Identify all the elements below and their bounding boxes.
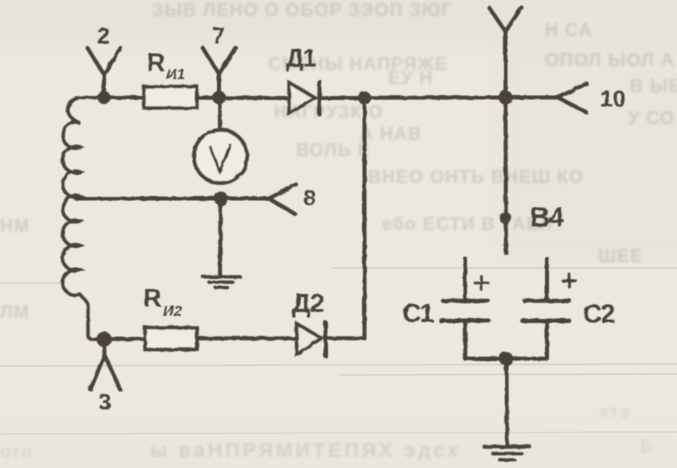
- svg-text:Б: Б: [640, 436, 654, 456]
- capacitor C1: [441, 259, 489, 359]
- node junction 7: [212, 91, 226, 105]
- wire voltmeter junction to ground: [218, 199, 223, 277]
- svg-text:С2: С2: [583, 299, 615, 329]
- terminal 2: [88, 48, 121, 95]
- node junction below voltmeter: [214, 192, 228, 206]
- svg-text:Н СА: Н СА: [545, 20, 593, 40]
- wire junction10 down to B4: [504, 98, 509, 254]
- svg-text:ОПОЛ ЫОЛ А: ОПОЛ ЫОЛ А: [545, 50, 675, 70]
- svg-text:Д1: Д1: [286, 45, 317, 73]
- inductor L coil: [63, 97, 104, 339]
- svg-text:R: R: [147, 49, 165, 77]
- label RИ2: [144, 285, 183, 321]
- terminal 10: [506, 84, 587, 113]
- svg-text:ЛМ: ЛМ: [0, 302, 30, 322]
- svg-text:Д2: Д2: [292, 288, 324, 318]
- resistor RИ2: [145, 328, 197, 350]
- terminal 8: [221, 185, 296, 215]
- voltmeter U1: [194, 130, 247, 183]
- svg-text:3: 3: [99, 389, 112, 415]
- wire node A to node 10: [365, 96, 506, 100]
- label RИ1: [147, 49, 185, 83]
- wire junction to ground 2: [505, 359, 510, 445]
- wire junction2 to RИ1: [104, 96, 145, 100]
- svg-text:С1: С1: [403, 298, 434, 328]
- wire riser node A down: [363, 98, 367, 338]
- svg-text:8: 8: [304, 186, 316, 211]
- wire capacitor bottoms: [465, 357, 547, 361]
- wire coil tap to voltmeter junction: [76, 197, 221, 201]
- wire junction3 to RИ2: [104, 337, 146, 342]
- capacitor C2: [523, 259, 577, 359]
- svg-text:У СО: У СО: [628, 108, 675, 128]
- wire RИ2 to Д2: [197, 336, 297, 340]
- svg-text:И2: И2: [163, 303, 183, 320]
- node B4: [499, 212, 511, 224]
- svg-text:ШЕЕ: ШЕЕ: [598, 246, 643, 266]
- node junction 10: [499, 91, 513, 105]
- node A junction: [358, 91, 371, 104]
- resistor RИ1: [144, 87, 197, 109]
- svg-text:2: 2: [97, 23, 110, 49]
- wire Д1 to node A: [320, 96, 365, 100]
- svg-text:В ЫБ: В ЫБ: [630, 76, 677, 96]
- ground bottom right: [485, 447, 530, 460]
- terminal 3: [91, 339, 121, 390]
- diode Д1: [289, 82, 320, 115]
- svg-text:ебо ЕСТИ В ТАБЛ: ебо ЕСТИ В ТАБЛ: [382, 214, 553, 234]
- svg-text:7: 7: [212, 23, 225, 49]
- svg-text:И1: И1: [166, 66, 185, 83]
- wire Д2 to riser: [326, 336, 365, 340]
- node junction 2: [97, 91, 110, 104]
- svg-text:ото: ото: [0, 442, 33, 462]
- node junction 3: [96, 332, 111, 347]
- svg-text:НМ: НМ: [0, 216, 30, 236]
- diode Д2: [297, 323, 326, 357]
- terminal antenna top: [489, 8, 522, 97]
- faint rules (decorative): [0, 268, 677, 434]
- svg-text:10: 10: [600, 86, 626, 112]
- wire RИ1 to Д1: [197, 96, 289, 100]
- voltmeter V glyph: [210, 145, 230, 172]
- svg-text:ВНЕО ОНТЬ ВНЕШ КО: ВНЕО ОНТЬ ВНЕШ КО: [368, 167, 584, 187]
- svg-text:ЗЫВ ЛЕНО О ОБОР ЗЭОП ЗЮГ: ЗЫВ ЛЕНО О ОБОР ЗЭОП ЗЮГ: [152, 0, 453, 20]
- ground below voltmeter: [203, 277, 241, 288]
- svg-text:В4: В4: [530, 202, 565, 233]
- svg-text:ктэ: ктэ: [600, 402, 631, 422]
- svg-text:R: R: [144, 285, 162, 313]
- svg-text:ы ваНПРЯМИТЕПЯХ эдсх: ы ваНПРЯМИТЕПЯХ эдсх: [150, 440, 461, 462]
- wire junction7 down to voltmeter: [218, 98, 223, 131]
- svg-text:ЕУ Н: ЕУ Н: [388, 68, 433, 88]
- node junction capacitors: [499, 352, 513, 366]
- svg-text:ВОЛЬ Е: ВОЛЬ Е: [296, 140, 371, 160]
- terminal 7: [203, 48, 236, 96]
